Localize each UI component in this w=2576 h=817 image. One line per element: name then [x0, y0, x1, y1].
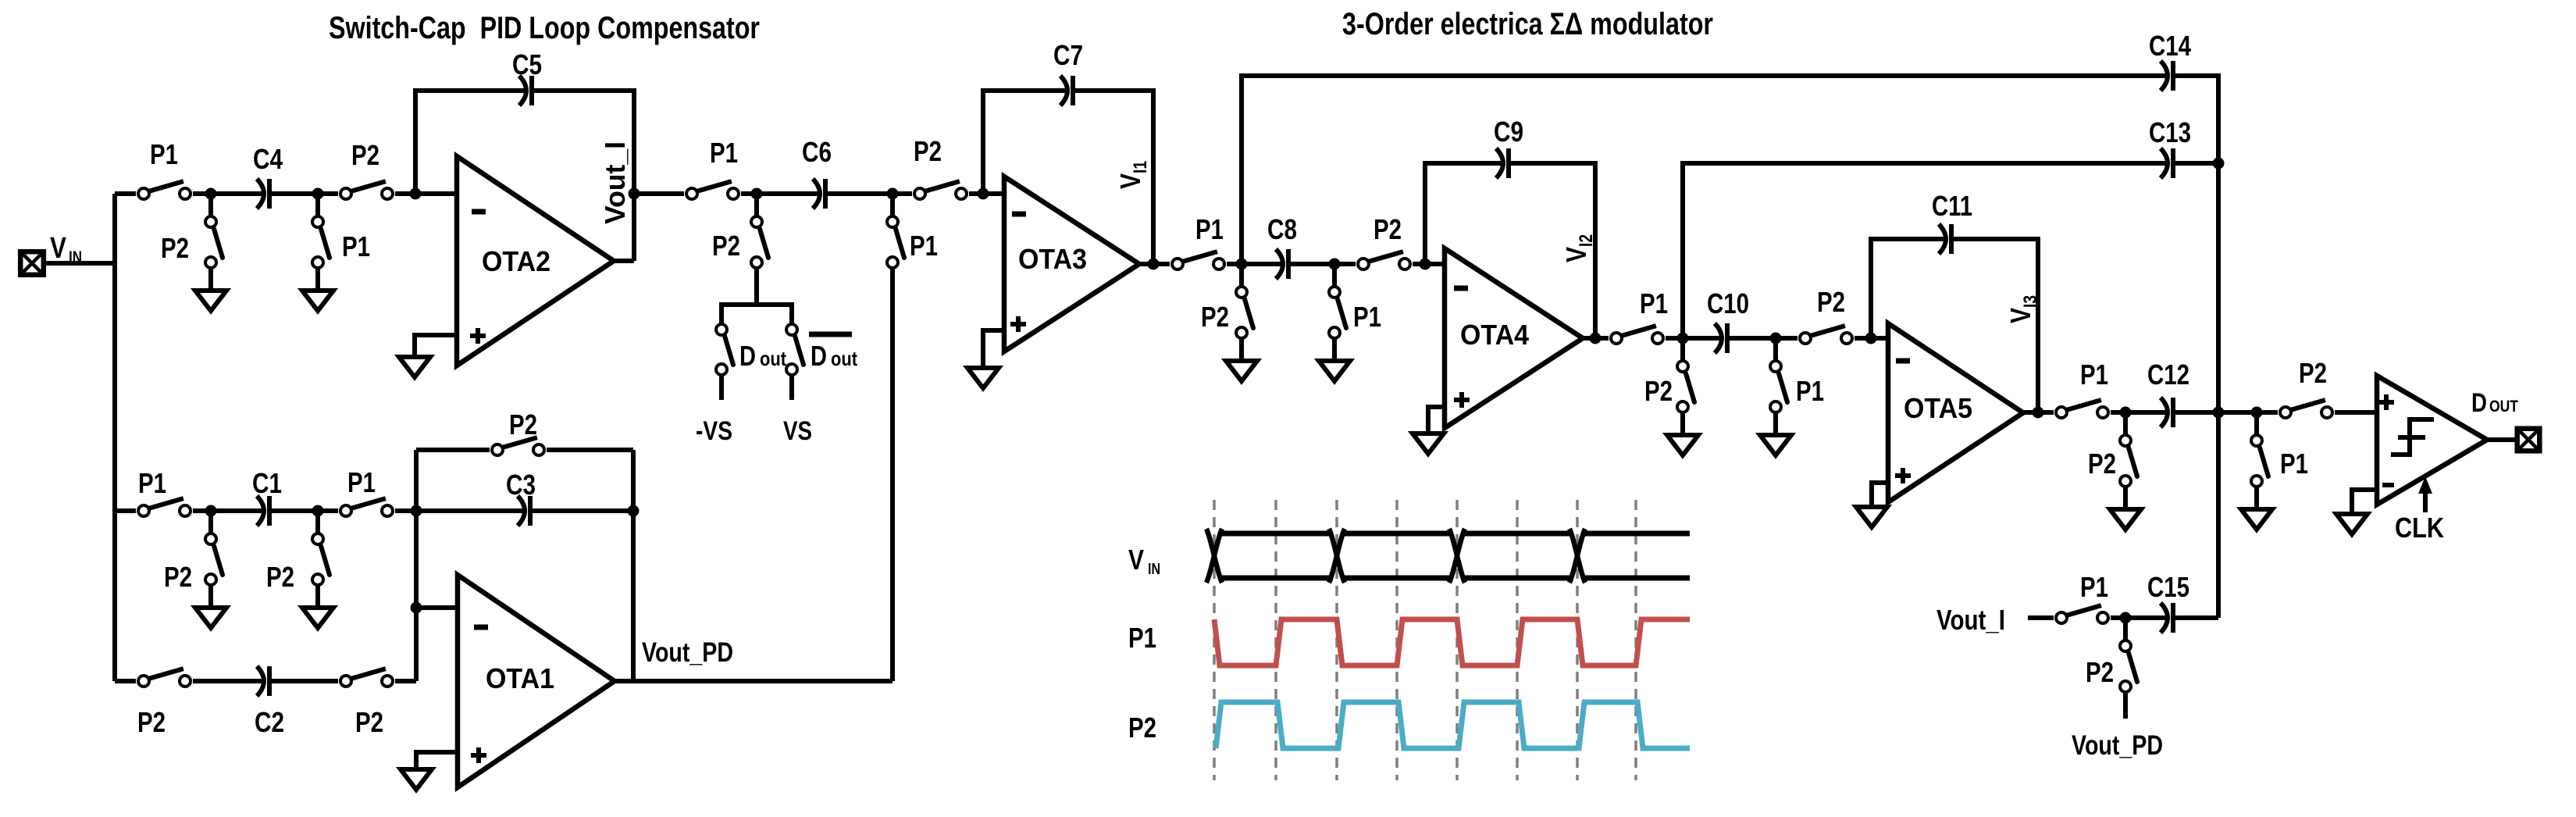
svg-text:C2: C2: [255, 706, 284, 738]
svg-text:P1: P1: [342, 230, 370, 262]
svg-text:CLK: CLK: [2395, 512, 2444, 544]
svg-text:P2: P2: [355, 706, 383, 738]
svg-text:C1: C1: [252, 467, 282, 499]
svg-text:OTA5: OTA5: [1904, 392, 1972, 424]
svg-text:IN: IN: [69, 248, 82, 266]
svg-text:P2: P2: [1201, 301, 1229, 333]
svg-text:P1: P1: [1640, 287, 1668, 319]
svg-text:P1: P1: [138, 467, 166, 499]
svg-text:P1: P1: [1195, 213, 1224, 245]
svg-text:C13: C13: [2149, 116, 2191, 148]
svg-text:D: D: [2471, 388, 2487, 418]
svg-text:Vout_PD: Vout_PD: [642, 637, 733, 668]
svg-text:out: out: [831, 347, 857, 370]
svg-text:P1: P1: [150, 138, 178, 170]
svg-text:P1: P1: [347, 466, 376, 498]
svg-text:C8: C8: [1267, 213, 1297, 245]
svg-text:OTA3: OTA3: [1018, 243, 1087, 275]
svg-text:P2: P2: [2299, 357, 2327, 389]
svg-text:P2: P2: [2086, 656, 2114, 688]
svg-text:P2: P2: [712, 230, 740, 262]
svg-text:-VS: -VS: [696, 416, 732, 446]
svg-text:P2: P2: [164, 561, 192, 593]
svg-text:OUT: OUT: [2489, 398, 2518, 416]
svg-text:C4: C4: [253, 143, 283, 175]
svg-text:out: out: [760, 347, 786, 370]
svg-text:3-Order electrica ΣΔ modulator: 3-Order electrica ΣΔ modulator: [1342, 7, 1713, 41]
svg-text:P1: P1: [910, 230, 938, 262]
svg-text:OTA4: OTA4: [1460, 319, 1529, 351]
svg-text:P1: P1: [710, 137, 738, 169]
svg-text:C12: C12: [2147, 359, 2189, 391]
svg-text:D: D: [739, 340, 756, 372]
svg-text:P2: P2: [914, 135, 942, 167]
svg-text:Vout_I: Vout_I: [599, 141, 631, 224]
svg-text:C15: C15: [2147, 571, 2189, 603]
svg-text:C6: C6: [802, 136, 832, 168]
svg-text:P2: P2: [2088, 448, 2116, 480]
svg-text:C10: C10: [1707, 287, 1749, 319]
svg-text:IN: IN: [1148, 561, 1160, 578]
svg-text:Vout_PD: Vout_PD: [2072, 730, 2163, 761]
svg-text:C7: C7: [1053, 39, 1083, 71]
svg-text:V: V: [50, 232, 67, 265]
svg-text:V: V: [1128, 544, 1144, 576]
svg-text:VS: VS: [783, 416, 812, 446]
svg-text:C3: C3: [506, 469, 536, 501]
svg-text:P2: P2: [1644, 375, 1673, 407]
svg-text:D: D: [811, 340, 827, 372]
svg-text:P2: P2: [266, 561, 294, 593]
svg-text:P1: P1: [2280, 448, 2308, 480]
svg-text:P2: P2: [1128, 712, 1156, 744]
svg-text:P2: P2: [1817, 286, 1845, 318]
svg-text:P2: P2: [137, 706, 166, 738]
svg-text:C5: C5: [512, 48, 542, 80]
svg-text:OTA2: OTA2: [482, 245, 550, 277]
svg-text:P2: P2: [161, 232, 189, 264]
svg-text:Switch-Cap PID Loop Compensat: Switch-Cap PID Loop Compensator: [329, 11, 760, 45]
svg-text:P1: P1: [2080, 571, 2108, 603]
svg-text:OTA1: OTA1: [486, 662, 554, 694]
svg-text:P1: P1: [1353, 301, 1381, 333]
svg-text:P2: P2: [509, 408, 537, 441]
svg-text:P2: P2: [351, 139, 379, 171]
svg-text:Vout_I: Vout_I: [1936, 604, 2005, 636]
svg-text:C9: C9: [1494, 116, 1523, 148]
svg-text:P2: P2: [1374, 213, 1402, 245]
svg-text:P1: P1: [2080, 359, 2108, 391]
svg-text:C11: C11: [1932, 190, 1972, 222]
svg-text:P1: P1: [1796, 375, 1824, 407]
svg-text:P1: P1: [1128, 622, 1156, 654]
svg-text:C14: C14: [2149, 30, 2191, 62]
